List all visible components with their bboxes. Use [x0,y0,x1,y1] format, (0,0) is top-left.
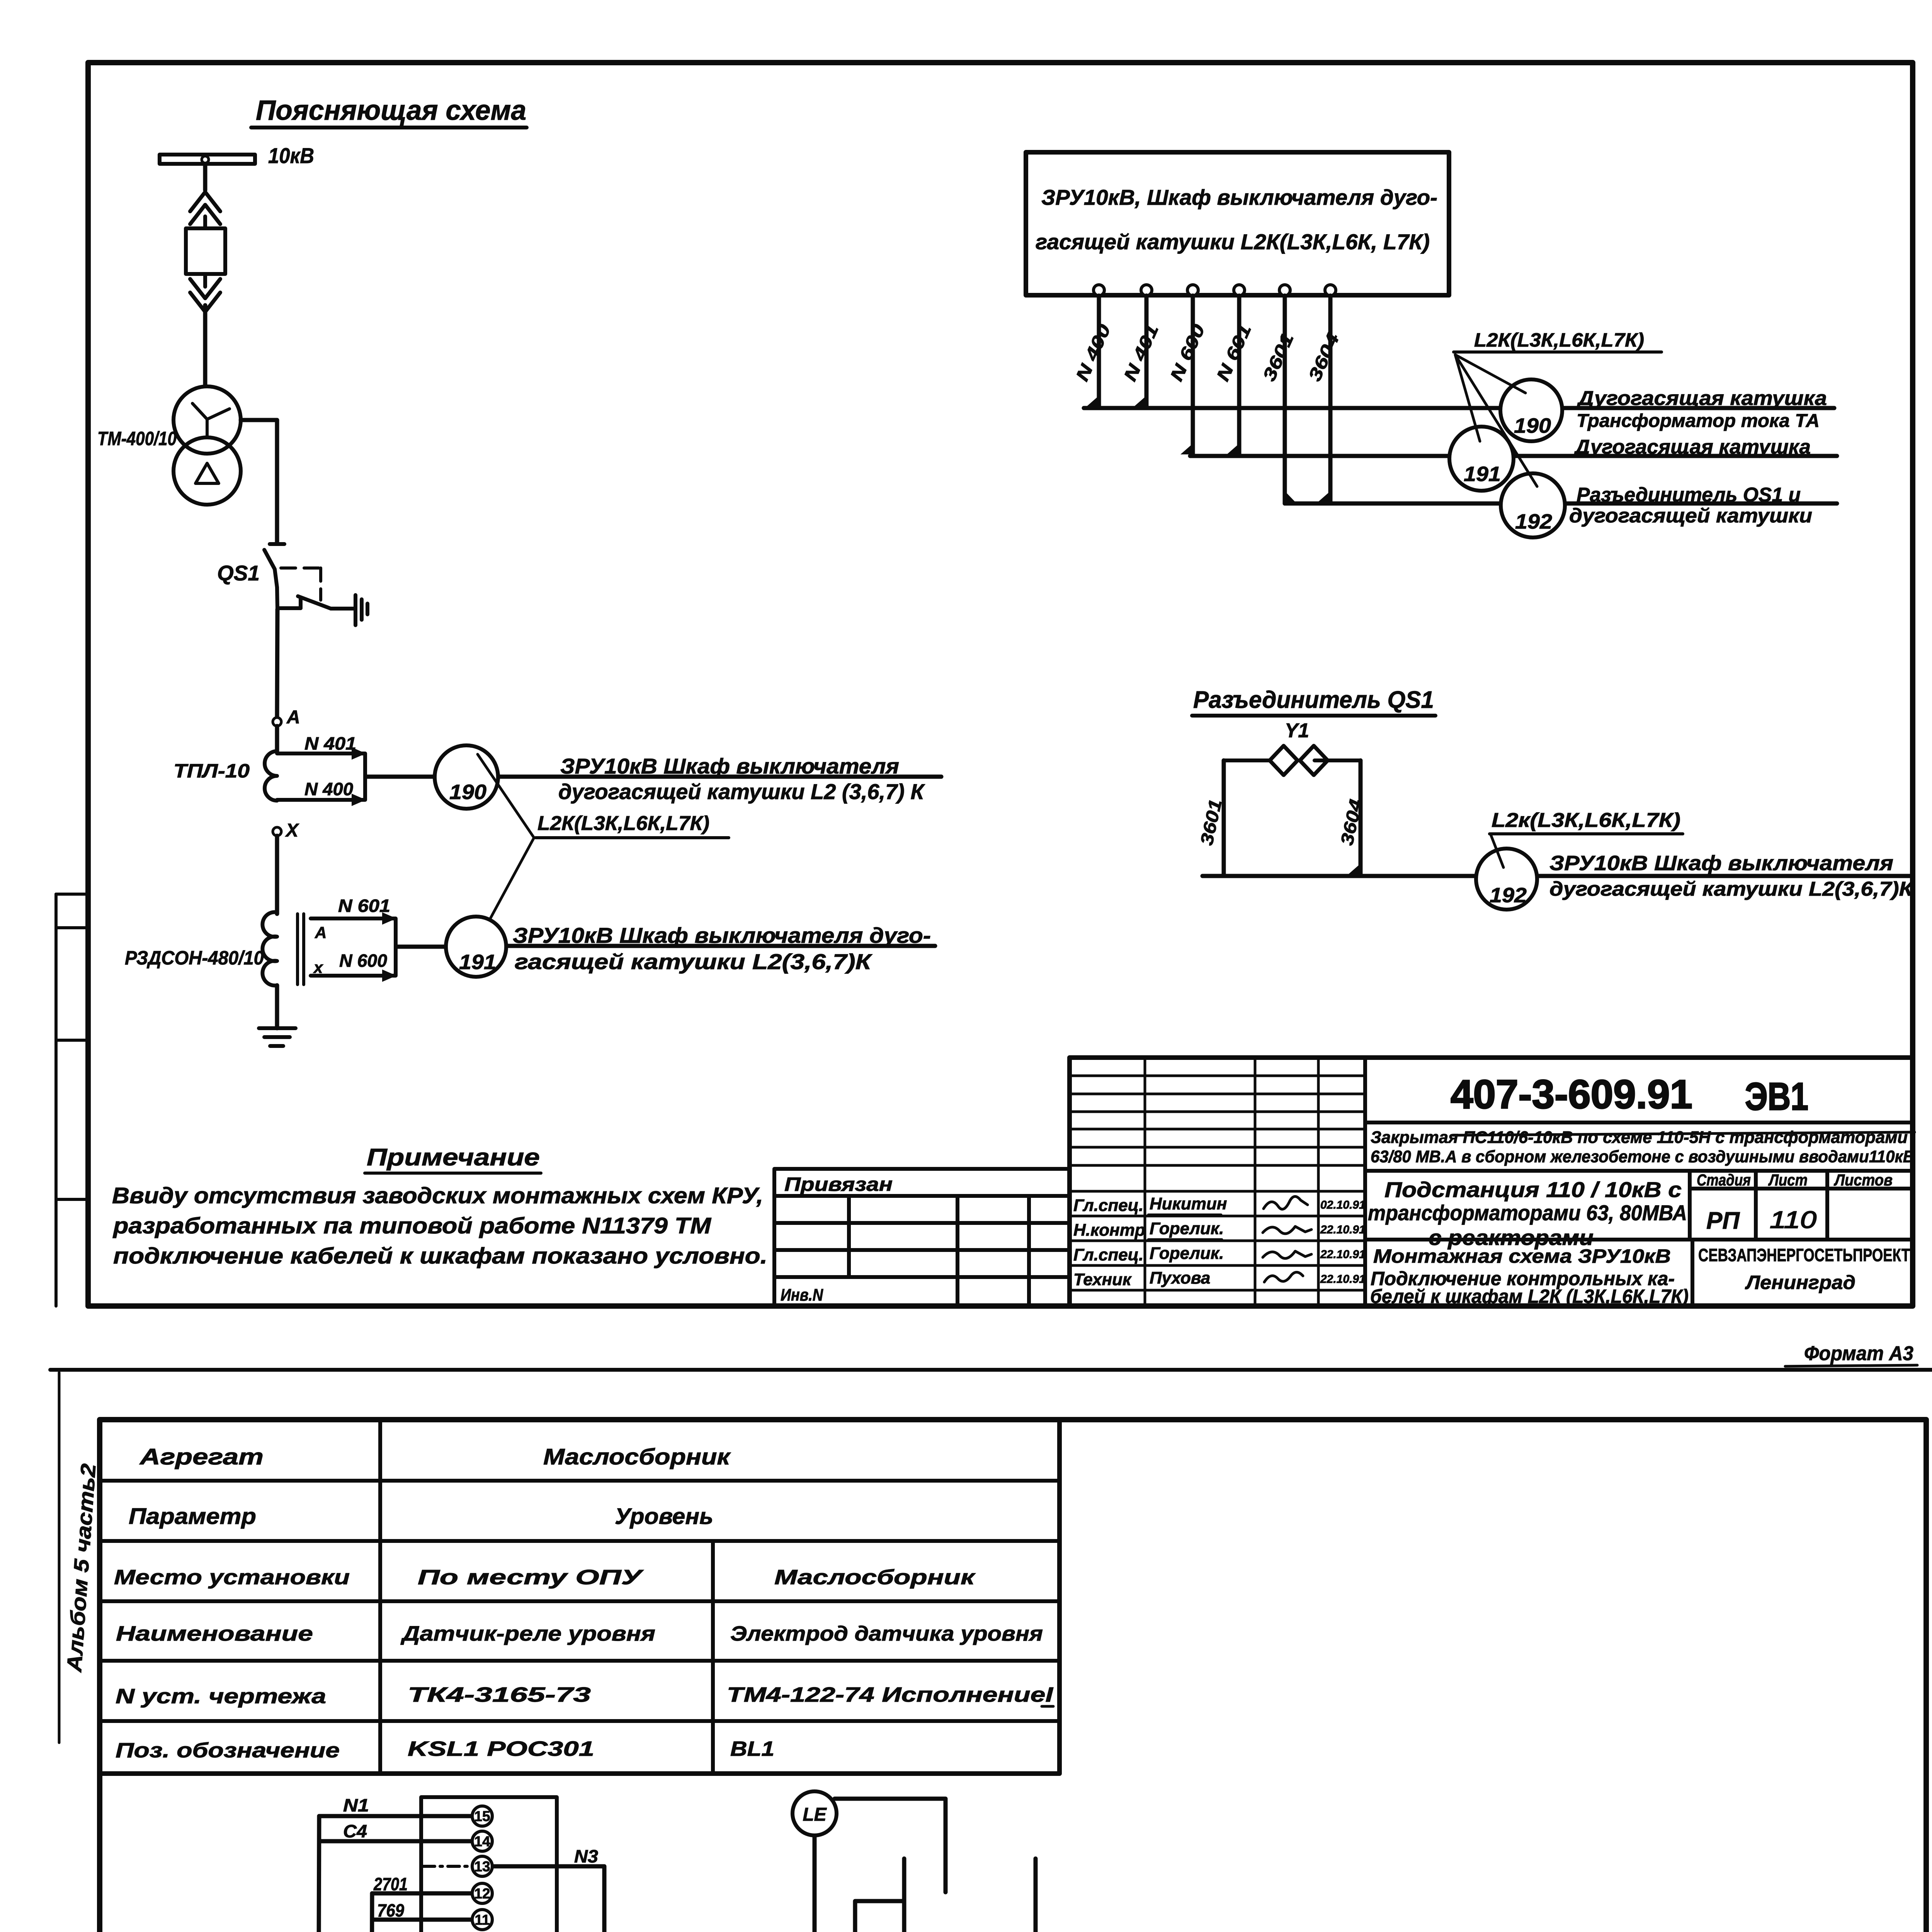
svg-text:Разъединитель QS1 и: Разъединитель QS1 и [1577,484,1801,506]
table row Агрегат / Маслосборник [139,1444,731,1469]
svg-text:разработанных па типовой ра: разработанных па типовой работе N11379 Т… [112,1213,712,1238]
svg-text:Пухова: Пухова [1150,1269,1210,1287]
svg-text:11: 11 [474,1912,490,1928]
terminal 11 [472,1910,492,1930]
table row Поз. обозначение [116,1737,774,1762]
svg-text:дугогасящей катушки L2 (3,6,: дугогасящей катушки L2 (3,6,7) К [558,779,925,804]
svg-text:гасящей катушки L2К(L3К,L6К,: гасящей катушки L2К(L3К,L6К, L7К) [1036,230,1430,254]
svg-text:BL1: BL1 [730,1737,774,1760]
svg-text:110: 110 [1770,1207,1816,1233]
wire N400 [1097,296,1101,408]
title block sheet 1 [1070,1058,1913,1306]
wire N1 to terminal 15 [319,1814,472,1818]
cable bus 3 (3601,3604) [1285,502,1837,506]
cable bus 1 (N400,N401) [1084,406,1834,410]
svg-text:ТПЛ-10: ТПЛ-10 [173,760,250,782]
cabinet terminal N600 [1187,285,1198,296]
oil collector vessel [904,1859,1036,1932]
table row Параметр / Уровень [129,1504,713,1529]
terminal 12 [472,1883,492,1903]
svg-text:22.10.91: 22.10.91 [1320,1223,1366,1236]
svg-text:Маслосборник: Маслосборник [774,1566,976,1589]
svg-text:Уровень: Уровень [615,1504,713,1529]
svg-text:N1: N1 [343,1795,369,1815]
svg-text:Листов: Листов [1833,1171,1893,1189]
svg-text:С4: С4 [343,1821,367,1841]
svg-text:Наименование: Наименование [116,1622,313,1645]
wire node X to RZDSON [275,836,279,914]
heading Примечание [365,1144,541,1173]
dash-dot stub terminal 13 [423,1865,471,1868]
svg-text:63/80 МВ.А в сборном железобет: 63/80 МВ.А в сборном железобетоне с возд… [1371,1147,1915,1166]
riser А3 to LE [813,1835,817,1932]
svg-text:Электрод датчика уровня: Электрод датчика уровня [730,1622,1043,1645]
РЗДСОН core [298,914,304,985]
cable bus 2 (N600,N601) [1190,454,1837,458]
svg-text:Горелик.: Горелик. [1150,1244,1224,1263]
svg-text:А: А [286,707,300,728]
svg-text:190: 190 [1514,414,1551,437]
cabinet ЗРУ10кВ box [1026,152,1449,295]
terminal 13 [472,1856,492,1876]
wire 3604 of QS1 [1359,760,1363,876]
wire N601 [1237,296,1242,456]
leader lines L2K to circles [1455,355,1537,486]
sheet 2 left paper edge [58,1372,61,1743]
wire 2701 to terminal 12 [372,1891,472,1896]
svg-text:407-3-609.91: 407-3-609.91 [1451,1072,1692,1117]
signature squiggles sheet 1 [1148,1196,1311,1282]
label L2К(L3К,L6К,L7К) with underline [536,812,729,838]
wire circle 191 to cabinets [500,944,935,948]
svg-text:РЗДСОН-480/10: РЗДСОН-480/10 [125,947,264,969]
wire РЗДСОН to ground [275,985,279,1028]
junction 3601 corner [1285,491,1295,502]
svg-text:ЗРУ10кВ, Шкаф выключателя дуго: ЗРУ10кВ, Шкаф выключателя дуго- [1041,185,1437,209]
wire 769 to terminal 11 [372,1918,472,1922]
svg-text:Лист: Лист [1768,1171,1808,1189]
earthing switch of QS1 [277,596,354,609]
svg-text:гасящей катушки L2(3,6,7)К: гасящей катушки L2(3,6,7)К [515,949,872,974]
heading Разъединитель QS1 [1192,687,1435,716]
svg-text:ТК4-3165-73: ТК4-3165-73 [408,1683,591,1706]
svg-text:190: 190 [449,781,486,804]
wire С4 to terminal 14 [319,1839,472,1844]
level electrode LE [793,1791,837,1835]
svg-text:N3: N3 [574,1846,598,1866]
svg-text:N 601: N 601 [338,896,390,916]
svg-text:Y1: Y1 [1285,719,1309,742]
svg-text:Ввиду отсутствия заводских мо: Ввиду отсутствия заводских монтажных схе… [112,1183,763,1208]
svg-text:Стадия: Стадия [1697,1171,1751,1189]
wire node A to TA [275,726,279,753]
title: Поясняющая схема [251,95,527,128]
svg-text:KSL1 РОС301: KSL1 РОС301 [408,1737,594,1760]
table row Место установки [114,1566,976,1589]
cabinet terminal N401 [1141,285,1152,296]
cabinet terminal N400 [1094,285,1104,296]
svg-text:подключение кабелей к шкафам: подключение кабелей к шкафам показано ус… [113,1243,767,1269]
svg-text:13: 13 [474,1859,490,1874]
cabinet terminal N601 [1234,285,1245,296]
svg-text:РП: РП [1706,1207,1740,1234]
node A [273,718,281,726]
svg-text:ЭВ1: ЭВ1 [1745,1075,1808,1118]
wire QS1 to node A [277,609,277,718]
signature rows sheet 1 [1073,1194,1366,1289]
cable circle 191 right [1449,427,1514,491]
arrester FV1 body [186,228,225,274]
arrester FV1 chevrons down [190,274,220,312]
cable circle 190 right [1500,379,1562,441]
cabinet terminal 3604 [1325,285,1336,296]
attachment table Привязан sheet 1 [774,1169,1070,1306]
leader line to circle 190 [478,754,534,838]
svg-text:Примечание: Примечание [367,1144,540,1171]
svg-text:ТМ4-122-74 ИсполнениеI: ТМ4-122-74 ИсполнениеI [727,1683,1053,1706]
svg-text:191: 191 [459,951,496,974]
junction 3604 bus [1348,864,1361,874]
svg-text:ТМ-400/10: ТМ-400/10 [97,428,177,449]
svg-text:Параметр: Параметр [129,1504,256,1529]
svg-text:Агрегат: Агрегат [139,1444,264,1469]
svg-text:Поясняющая схема: Поясняющая схема [256,95,526,126]
svg-text:трансформаторами 63, 80МВА: трансформаторами 63, 80МВА [1368,1201,1687,1225]
svg-text:L2К(L3К,L6К,L7К): L2К(L3К,L6К,L7К) [1474,329,1644,351]
svg-text:X: X [285,820,299,841]
table row N уст. чертежа [116,1683,1053,1708]
junction N600 [1180,444,1193,454]
svg-text:769: 769 [377,1900,404,1920]
svg-text:Техник: Техник [1073,1270,1132,1289]
TA secondary bracket [277,747,366,806]
svg-text:Привязан: Привязан [784,1173,893,1195]
svg-text:По месту ОПУ: По месту ОПУ [418,1566,644,1589]
panel У1 riser [370,1893,372,1932]
cable circle 192 [1476,849,1537,910]
ground of РЗДСОН [259,1028,296,1046]
svg-text:N 600: N 600 [339,951,387,971]
svg-text:192: 192 [1490,884,1527,907]
sheet 1 drawing frame [88,63,1913,1306]
wire 3601 [1283,296,1287,503]
subtitle strike mark [1453,1132,1915,1135]
svg-text:Горелик.: Горелик. [1150,1219,1224,1238]
terminal 15 [472,1806,492,1826]
current transformer TA ТПЛ-10 primary [265,751,277,801]
junction N400 [1087,396,1099,406]
svg-text:N уст. чертежа: N уст. чертежа [116,1685,326,1708]
wire transformer to QS1 [241,420,277,543]
cable bus of QS1 [1202,874,1911,878]
wire TA to circle 190 [366,775,440,779]
svg-text:ЗРУ10кВ Шкаф выключателя: ЗРУ10кВ Шкаф выключателя [1549,852,1893,875]
drive Y1 symbol [1224,746,1361,775]
ground of QS1 earthing switch [355,595,367,625]
svg-text:ЗРУ10кВ Шкаф выключателя дуго: ЗРУ10кВ Шкаф выключателя дуго- [513,923,931,947]
terminal strip box [421,1797,557,1932]
busbar 10kV [160,155,255,164]
svg-text:Разъединитель QS1: Разъединитель QS1 [1193,687,1434,713]
wire РЗДСОН to circle 191 [396,945,452,949]
svg-text:Формат А3: Формат А3 [1804,1342,1913,1365]
junction N401 [1134,396,1146,406]
riser N3 to vessel [855,1901,904,1932]
svg-text:12: 12 [474,1886,490,1901]
svg-text:белей к шкафам L2К (L3К,L6К,L7: белей к шкафам L2К (L3К,L6К,L7К) [1370,1286,1689,1307]
transformer T1 TM-400/10 [173,386,241,505]
svg-text:СЕВЗАПЭНЕРГОСЕТЬПРОЕКТ: СЕВЗАПЭНЕРГОСЕТЬПРОЕКТ [1698,1245,1910,1265]
wire 3601 of QS1 [1222,760,1226,876]
label Формат А3 sheet 1 [1785,1342,1917,1366]
junction N601 [1227,444,1239,454]
svg-text:L2к(L3К,L6К,L7К): L2к(L3К,L6К,L7К) [1492,809,1680,832]
svg-text:22.10.91: 22.10.91 [1320,1273,1366,1286]
svg-text:N 401: N 401 [304,733,356,753]
LE electrode line [835,1799,946,1892]
svg-text:Никитин: Никитин [1150,1194,1227,1213]
arrester FV1 chevrons up [190,192,220,228]
svg-text:02.10.91: 02.10.91 [1320,1199,1366,1211]
svg-text:22.10.91: 22.10.91 [1320,1248,1366,1261]
svg-text:Монтажная схема ЗРУ10кВ: Монтажная схема ЗРУ10кВ [1373,1245,1671,1267]
svg-text:Н.контр: Н.контр [1073,1221,1145,1240]
svg-text:Инв.N: Инв.N [781,1286,823,1304]
svg-text:LE: LE [803,1804,827,1825]
svg-text:2701: 2701 [373,1874,408,1894]
disconnector QS1 [264,544,321,609]
node X [273,827,281,836]
grounding transformer РЗДСОН-480/10 primary [262,912,277,986]
label L2к(L3К,L6К,L7К) QS1 fig [1490,809,1683,867]
svg-text:Дугогасящая катушка: Дугогасящая катушка [1577,387,1827,410]
svg-text:Дугогасящая катушка: Дугогасящая катушка [1573,436,1811,458]
svg-text:Маслосборник: Маслосборник [543,1444,731,1469]
svg-text:191: 191 [1464,463,1501,486]
wire busbar to arrester [203,165,207,190]
table row Наименование [116,1622,1043,1645]
svg-text:Гл.спец.: Гл.спец. [1073,1196,1143,1215]
parameter table sheet 2 [100,1420,1060,1774]
wire circle 190 to cabinets [491,775,941,779]
cabinet terminal 3601 [1279,285,1290,296]
svg-text:Датчик-реле уровня: Датчик-реле уровня [400,1622,655,1645]
svg-text:А: А [315,923,327,942]
junction 3604 [1318,491,1330,502]
cable circle 191 [446,917,506,977]
sheet 1 left margin cells [56,894,88,1306]
wire N401 [1145,296,1149,408]
wire N3 from terminal 13 [492,1866,604,1932]
leader line to circle 191 [483,838,534,932]
РЗДСОН secondary bracket [311,912,396,982]
svg-text:14: 14 [474,1833,490,1849]
svg-text:N 400: N 400 [304,779,353,799]
label N1 [343,1795,369,1815]
wire 3604 [1328,296,1333,503]
svg-text:Место установки: Место установки [114,1566,350,1589]
sheet cut line between sheet 1 and sheet 2 [50,1368,1932,1372]
wire N600 [1191,296,1195,456]
svg-text:Ленинград: Ленинград [1745,1272,1855,1293]
svg-text:Трансформатор тока ТА: Трансформатор тока ТА [1577,411,1820,431]
svg-text:15: 15 [474,1808,490,1824]
svg-text:дугогасящей катушки: дугогасящей катушки [1569,505,1812,527]
svg-text:дугогасящей катушки L2(3,6,7)К: дугогасящей катушки L2(3,6,7)К [1549,878,1914,900]
svg-text:Подстанция 110 / 10кВ с: Подстанция 110 / 10кВ с [1384,1177,1682,1202]
svg-text:Гл.спец.: Гл.спец. [1073,1245,1143,1264]
terminal 14 [472,1831,492,1851]
svg-text:192: 192 [1515,510,1552,533]
svg-text:L2К(L3К,L6К,L7К): L2К(L3К,L6К,L7К) [537,812,709,835]
sheet 2 drawing frame [100,1420,1926,1932]
svg-text:QS1: QS1 [217,561,260,585]
wire arrester to transformer [203,305,207,387]
cable circle 192 right [1501,473,1565,537]
svg-text:x: x [313,958,323,976]
svg-text:ЗРУ10кВ Шкаф выключателя: ЗРУ10кВ Шкаф выключателя [560,754,899,778]
cable circle 190 [435,745,498,809]
panel Р10 riser [317,1816,319,1932]
svg-text:Закрытая ПС110/6-10кВ по схеме: Закрытая ПС110/6-10кВ по схеме 110-5Н с … [1371,1128,1908,1147]
svg-text:Поз. обозначение: Поз. обозначение [116,1739,340,1762]
label L2К(L3К,L6К,L7К) top right [1454,329,1662,352]
svg-text:10кВ: 10кВ [268,143,314,168]
